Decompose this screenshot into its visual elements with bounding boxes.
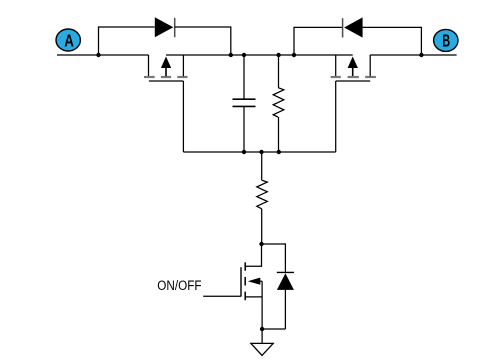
wire gate ON/OFF — [203, 295, 241, 297]
wire to ground — [261, 329, 263, 343]
wire bottom gate rail — [183, 151, 335, 153]
lower resistor (gate pulldown) — [257, 180, 268, 209]
junction resistor bottom — [277, 150, 281, 154]
N-MOSFET channel bars — [244, 262, 246, 300]
junction cap top — [242, 53, 246, 57]
svg-text:ON/OFF: ON/OFF — [157, 278, 201, 293]
junction source/ground node — [260, 327, 264, 331]
wire middle resistor bottom — [278, 117, 280, 152]
right diode (anode B side) — [343, 17, 363, 37]
capacitor — [233, 99, 256, 106]
wire middle rail — [166, 54, 353, 56]
left MOSFET gate line — [149, 80, 184, 82]
wire N-MOSFET drain path — [246, 244, 262, 266]
right MOSFET source vertical — [335, 55, 337, 76]
junction stub top — [259, 150, 263, 154]
wire right gate drop to bottom rail — [335, 81, 337, 152]
junction A — [96, 53, 100, 57]
clamp diode (body diode) — [277, 272, 294, 290]
N-MOSFET body arrow — [248, 278, 262, 285]
N-MOSFET source tap — [246, 296, 262, 298]
svg-text:B: B — [442, 30, 450, 50]
ground — [251, 343, 273, 355]
wire lower resistor to drain node — [261, 209, 263, 244]
junction B — [419, 53, 423, 57]
junction drain node — [259, 242, 263, 246]
wire right diode to B junction — [363, 27, 422, 55]
right MOSFET drain vertical — [369, 55, 371, 76]
wire drain node to clamp diode top — [262, 244, 286, 272]
node B — [434, 29, 458, 51]
left MOSFET source vertical — [182, 55, 184, 76]
svg-text:A: A — [64, 31, 74, 51]
wire capacitor top — [243, 55, 245, 99]
wire right MOSFET drain to B — [370, 54, 456, 56]
wire left gate drop to bottom rail — [182, 81, 184, 152]
wire left diode cathode to middle rail — [175, 27, 231, 55]
right MOSFET body arrow — [348, 57, 358, 77]
middle resistor (gate-source) — [273, 88, 284, 117]
junction right diode / rail — [292, 53, 296, 57]
wire middle resistor top — [278, 55, 280, 88]
left MOSFET drain vertical — [148, 55, 150, 76]
junction resistor top — [276, 53, 280, 57]
right MOSFET channel bars — [331, 76, 376, 78]
wire right diode branch up — [294, 27, 343, 55]
left diode (anode A side) — [155, 17, 175, 37]
N-MOSFET gate bar — [240, 267, 242, 296]
wire capacitor bottom — [243, 106, 245, 152]
wire clamp diode anode down — [284, 290, 286, 329]
wire bottom junction to diode anode — [262, 328, 285, 330]
wire body to source vertical — [261, 281, 263, 329]
right MOSFET gate line — [336, 80, 371, 82]
left MOSFET body arrow — [161, 57, 171, 77]
node A — [56, 29, 80, 51]
wire A terminal to left MOSFET drain — [57, 54, 149, 56]
wire center stub down — [261, 152, 263, 180]
wire A junction up to left diode — [99, 27, 155, 55]
junction cap bottom — [242, 150, 246, 154]
left MOSFET channel bars — [144, 76, 188, 78]
junction left diode / rail — [229, 53, 233, 57]
